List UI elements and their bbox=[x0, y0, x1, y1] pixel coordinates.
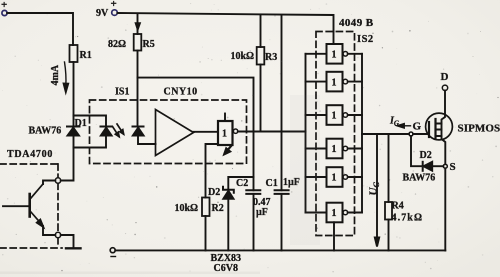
svg-text:1: 1 bbox=[332, 208, 337, 219]
svg-text:1: 1 bbox=[332, 173, 337, 184]
svg-text:µF: µF bbox=[256, 207, 268, 218]
svg-text:1: 1 bbox=[332, 77, 337, 88]
svg-text:S: S bbox=[450, 161, 456, 173]
svg-text:10kΩ: 10kΩ bbox=[175, 203, 199, 214]
svg-text:G: G bbox=[413, 121, 422, 133]
svg-text:R3: R3 bbox=[265, 52, 277, 63]
svg-text:C1: C1 bbox=[266, 178, 278, 189]
svg-text:+: + bbox=[1, 0, 7, 11]
svg-text:1: 1 bbox=[332, 111, 337, 122]
svg-text:+: + bbox=[111, 0, 117, 10]
svg-text:R2: R2 bbox=[212, 203, 224, 214]
svg-text:SIPMOS: SIPMOS bbox=[458, 123, 500, 135]
svg-text:R4: R4 bbox=[392, 201, 404, 212]
svg-text:IS1: IS1 bbox=[115, 87, 129, 98]
svg-text:1: 1 bbox=[332, 144, 337, 155]
svg-text:R5: R5 bbox=[143, 39, 155, 50]
svg-text:9V: 9V bbox=[96, 8, 109, 19]
svg-text:TDA4700: TDA4700 bbox=[7, 149, 53, 160]
svg-text:10kΩ: 10kΩ bbox=[231, 51, 255, 62]
svg-text:1: 1 bbox=[222, 129, 227, 140]
svg-text:D1: D1 bbox=[75, 118, 87, 129]
svg-text:BAW76: BAW76 bbox=[403, 173, 436, 184]
svg-text:BAW76: BAW76 bbox=[29, 126, 62, 137]
svg-text:D: D bbox=[441, 71, 449, 83]
svg-text:CNY10: CNY10 bbox=[164, 87, 198, 98]
svg-text:IS2: IS2 bbox=[357, 34, 374, 45]
svg-text:D2: D2 bbox=[208, 187, 220, 198]
svg-text:82Ω: 82Ω bbox=[108, 39, 126, 50]
svg-text:R1: R1 bbox=[80, 50, 92, 61]
svg-text:C2: C2 bbox=[236, 178, 248, 189]
svg-text:1: 1 bbox=[332, 50, 337, 61]
svg-text:D2: D2 bbox=[420, 150, 432, 161]
svg-text:4mA: 4mA bbox=[50, 64, 61, 85]
svg-text:4.7kΩ: 4.7kΩ bbox=[392, 213, 424, 224]
svg-text:4049 B: 4049 B bbox=[339, 17, 374, 29]
